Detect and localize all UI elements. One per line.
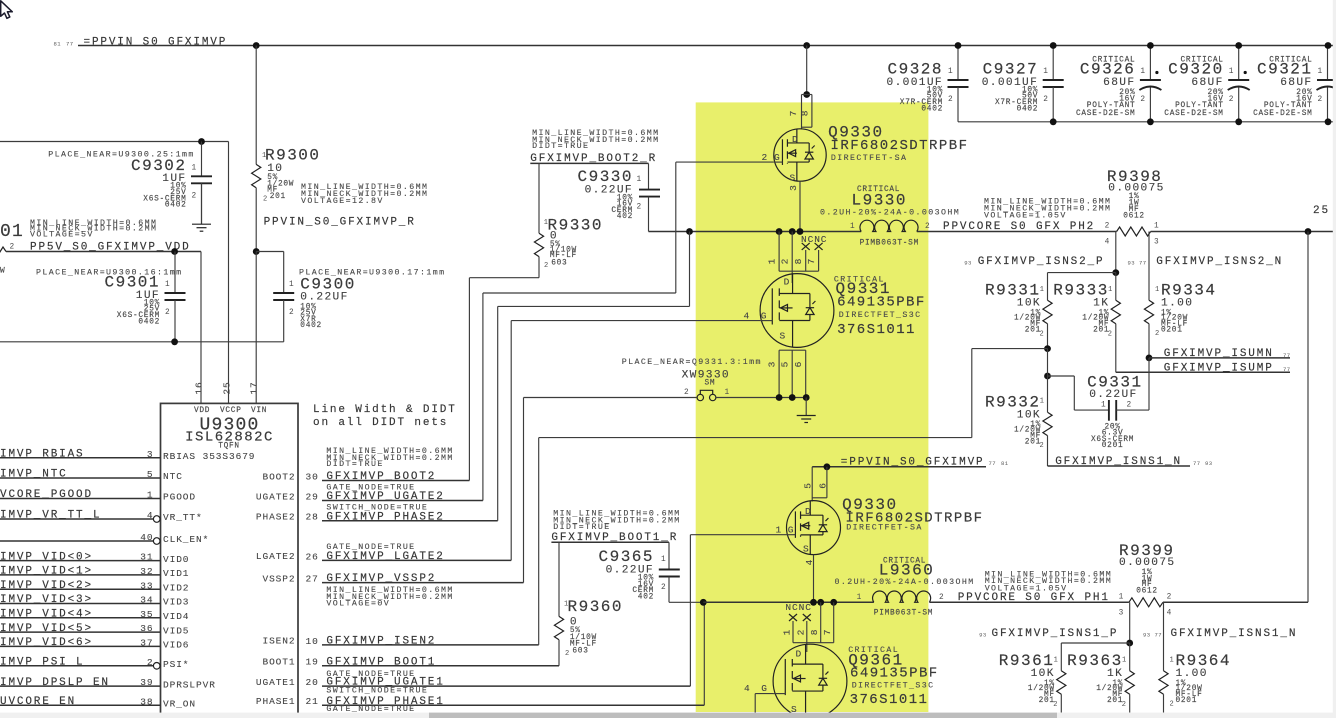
svg-text:68UF: 68UF — [1103, 77, 1135, 89]
svg-text:Line Width & DIDT: Line Width & DIDT — [313, 404, 457, 416]
svg-text:20: 20 — [306, 677, 319, 688]
wire Q9330 lower source pin 4 — [813, 555, 815, 603]
svg-text:93: 93 — [979, 631, 987, 638]
capacitor C9330 — [639, 189, 660, 191]
svg-text:402: 402 — [617, 213, 633, 221]
resistor R9331 — [1047, 273, 1049, 301]
svg-text:PPVCORE S0 GFX PH1: PPVCORE S0 GFX PH1 — [958, 592, 1110, 604]
junction dot sense2 T — [1112, 269, 1119, 276]
svg-text:PHASE2: PHASE2 — [256, 512, 296, 523]
svg-text:01: 01 — [0, 222, 24, 242]
svg-text:37: 37 — [140, 638, 153, 649]
svg-text:VOLTAGE=5V: VOLTAGE=5V — [30, 231, 94, 240]
svg-text:IMVP_VID<1>: IMVP_VID<1> — [0, 566, 93, 578]
svg-text:L9360: L9360 — [879, 561, 935, 579]
svg-text:GFXIMVP_ISUMN: GFXIMVP_ISUMN — [1164, 348, 1274, 360]
pin 34 VID3 — [0, 603, 161, 605]
svg-text:0402: 0402 — [300, 322, 322, 330]
ground under C9302 — [201, 183, 203, 224]
svg-text:VCORE_PGOOD: VCORE_PGOOD — [0, 489, 93, 501]
svg-text:1: 1 — [1108, 286, 1113, 294]
svg-text:DIRECTFET_S3C: DIRECTFET_S3C — [852, 681, 935, 690]
svg-text:0201: 0201 — [1161, 327, 1183, 335]
svg-text:1: 1 — [147, 490, 154, 501]
svg-text:IMVP_NTC: IMVP_NTC — [0, 469, 68, 481]
wire R9398 pin4 tap — [1115, 232, 1117, 273]
wire cap bank bottom rail — [958, 121, 1336, 123]
svg-text:1: 1 — [1229, 68, 1234, 76]
svg-text:GFXIMVP_ISNS1_P: GFXIMVP_ISNS1_P — [992, 628, 1119, 640]
svg-text:28: 28 — [306, 512, 319, 523]
svg-text:10K: 10K — [1017, 409, 1041, 421]
svg-text:649135PBF: 649135PBF — [837, 295, 926, 311]
svg-text:1.00: 1.00 — [1161, 298, 1193, 310]
wire Q9330 source pin 3 — [799, 181, 801, 231]
svg-text:402: 402 — [638, 594, 654, 602]
svg-text:POLY-TANT: POLY-TANT — [1264, 102, 1313, 110]
svg-text:VID3: VID3 — [163, 597, 189, 608]
svg-text:81: 81 — [54, 41, 62, 48]
svg-text:VR_TT*: VR_TT* — [163, 512, 203, 523]
svg-text:201: 201 — [270, 193, 286, 201]
svg-text:GFXIMVP_PHASE2: GFXIMVP_PHASE2 — [326, 511, 444, 523]
svg-text:27: 27 — [306, 574, 319, 585]
svg-text:3: 3 — [788, 184, 799, 191]
svg-text:31: 31 — [140, 552, 153, 563]
pin 1 PGOOD — [0, 498, 161, 500]
pin 40 CLK_EN* — [0, 540, 153, 542]
svg-text:PGOOD: PGOOD — [163, 492, 196, 503]
wire phase2 output right — [1151, 231, 1336, 233]
svg-text:36: 36 — [140, 623, 153, 634]
svg-text:VID2: VID2 — [163, 582, 189, 593]
svg-text:1: 1 — [165, 281, 170, 289]
svg-text:2: 2 — [147, 657, 154, 668]
wire LGATE1 to gate — [755, 693, 773, 695]
svg-text:VID6: VID6 — [163, 640, 189, 651]
svg-text:1: 1 — [1054, 656, 1059, 664]
pin 36 VID5 — [0, 631, 161, 633]
wire C9331 pin1 lead — [1048, 375, 1075, 377]
svg-text:0.2UH-20%-24A-0.003OHM: 0.2UH-20%-24A-0.003OHM — [820, 208, 960, 217]
svg-text:BOOT1: BOOT1 — [262, 657, 295, 668]
svg-text:7: 7 — [822, 629, 833, 636]
svg-text:RBIAS 353S3679: RBIAS 353S3679 — [163, 451, 255, 462]
svg-text:40: 40 — [140, 532, 153, 543]
pin 5 NTC — [0, 477, 161, 479]
svg-text:S: S — [790, 173, 797, 184]
svg-text:2: 2 — [939, 594, 944, 602]
svg-text:17: 17 — [249, 381, 260, 394]
pin 39 DPRSLPVR — [0, 685, 161, 687]
capacitor C9300 — [283, 252, 285, 294]
svg-text:26: 26 — [306, 551, 319, 562]
IC U9300 box — [161, 403, 299, 718]
svg-text:0201: 0201 — [1102, 442, 1124, 450]
transistor Q9361 — [806, 643, 808, 652]
svg-text:GFXIMVP_VSSP2: GFXIMVP_VSSP2 — [326, 573, 436, 585]
svg-text:VID1: VID1 — [163, 568, 189, 579]
net GFXIMVP_ISNS1_N upper — [1048, 465, 1191, 467]
svg-text:5: 5 — [803, 482, 814, 489]
svg-text:VOLTAGE=1.05V: VOLTAGE=1.05V — [985, 584, 1068, 593]
svg-text:77: 77 — [989, 460, 997, 467]
svg-text:29: 29 — [306, 491, 319, 502]
resistor R9361 — [1060, 643, 1062, 671]
svg-text:0.22UF: 0.22UF — [300, 291, 348, 303]
wire VSSP2 to jumper — [524, 397, 698, 399]
wire phase1 output — [929, 601, 1129, 603]
svg-text:1: 1 — [1318, 68, 1323, 76]
wire LGATE2 to gate — [511, 320, 760, 322]
svg-text:IMVP_RBIAS: IMVP_RBIAS — [0, 448, 85, 460]
polarity dot C9320 — [1244, 71, 1247, 74]
svg-text:8: 8 — [799, 110, 810, 117]
svg-text:32: 32 — [140, 566, 153, 577]
mouse cursor — [1, 1, 13, 19]
svg-text:DIRECTFET_S3C: DIRECTFET_S3C — [839, 311, 922, 320]
wire ISEN2 route — [538, 438, 540, 645]
svg-text:DIRECTFET-SA: DIRECTFET-SA — [831, 154, 907, 163]
wire BOOT2_R — [530, 162, 648, 164]
svg-text:IMVP_VR_TT_L: IMVP_VR_TT_L — [0, 510, 101, 522]
junction dot ISUM node1 — [1044, 345, 1051, 352]
svg-text:1: 1 — [948, 68, 953, 76]
svg-text:0201: 0201 — [1176, 697, 1198, 705]
svg-text:POLY-TANT: POLY-TANT — [1087, 102, 1136, 110]
junction dot VIN node — [253, 248, 260, 255]
svg-text:IRF6802SDTRPBF: IRF6802SDTRPBF — [831, 138, 969, 154]
svg-text:1: 1 — [850, 223, 855, 231]
svg-text:10: 10 — [267, 163, 283, 175]
svg-text:VID0: VID0 — [163, 554, 189, 565]
svg-text:D: D — [784, 277, 791, 288]
capacitor C9328 — [957, 46, 959, 81]
svg-text:6: 6 — [793, 361, 804, 368]
wire VIN jog to C9300 — [256, 251, 284, 253]
svg-text:DIDT=TRUE: DIDT=TRUE — [326, 460, 383, 469]
svg-text:1K: 1K — [1107, 668, 1123, 680]
svg-text:CLK_EN*: CLK_EN* — [163, 534, 209, 545]
svg-text:NCNC: NCNC — [785, 602, 811, 613]
wire Q9361 drain pins — [792, 621, 794, 643]
resistor R9334 — [1148, 232, 1150, 301]
svg-text:376S1011: 376S1011 — [850, 692, 929, 708]
svg-text:C9330: C9330 — [577, 168, 633, 186]
svg-text:DIDT=TRUE: DIDT=TRUE — [532, 142, 589, 151]
svg-text:2: 2 — [165, 309, 170, 317]
svg-text:1: 1 — [1040, 286, 1045, 294]
wire source node — [716, 397, 806, 399]
svg-text:GFXIMVP_LGATE2: GFXIMVP_LGATE2 — [326, 551, 444, 563]
svg-text:VID5: VID5 — [163, 625, 189, 636]
junction dots phase1 node — [810, 599, 817, 606]
svg-text:2: 2 — [1108, 330, 1113, 338]
svg-text:8: 8 — [809, 629, 820, 636]
svg-text:CASE-D2E-SM: CASE-D2E-SM — [1253, 110, 1312, 118]
capacitor C9331 — [1108, 400, 1110, 421]
svg-text:33: 33 — [140, 580, 153, 591]
svg-text:R9360: R9360 — [568, 598, 624, 616]
capacitor C9320 — [1238, 46, 1240, 81]
svg-text:2: 2 — [263, 196, 268, 204]
resistor R9332 — [1043, 412, 1052, 435]
svg-text:UGATE2: UGATE2 — [256, 491, 296, 502]
junction dot output join — [1305, 228, 1312, 235]
svg-text:1: 1 — [1040, 398, 1045, 406]
svg-text:PIMB063T-SM: PIMB063T-SM — [874, 610, 933, 618]
svg-text:UGATE1: UGATE1 — [256, 677, 296, 688]
polarity dot C9326 — [1155, 71, 1158, 74]
wire phase1 node — [703, 601, 874, 603]
svg-text:IMVP_PSI_L: IMVP_PSI_L — [0, 657, 85, 669]
wire C9302 stem from tap — [201, 142, 203, 177]
junction dot ISUMN — [1146, 355, 1153, 362]
wire sense1 to R9361 — [1061, 642, 1129, 644]
svg-text:1: 1 — [1155, 286, 1160, 294]
svg-text:CASE-D2E-SM: CASE-D2E-SM — [1164, 110, 1223, 118]
svg-text:VSSP2: VSSP2 — [262, 573, 295, 584]
pin 33 VID2 — [0, 588, 161, 590]
svg-text:2: 2 — [544, 262, 549, 270]
svg-text:IMVP_VID<4>: IMVP_VID<4> — [0, 609, 93, 621]
net =PPVIN_S0_GFXIMVP top rail wire — [78, 45, 1336, 47]
svg-text:1: 1 — [857, 594, 862, 602]
resistor R9364 — [1163, 602, 1165, 671]
svg-text:0402: 0402 — [921, 105, 943, 113]
svg-text:1: 1 — [1170, 656, 1175, 664]
svg-text:1: 1 — [289, 281, 294, 289]
svg-text:1.00: 1.00 — [1176, 668, 1208, 680]
junction dot sense1 T — [1126, 640, 1133, 647]
svg-text:1: 1 — [1101, 401, 1106, 409]
svg-text:2: 2 — [661, 584, 666, 592]
svg-text:1K: 1K — [1093, 298, 1109, 310]
svg-text:34: 34 — [140, 595, 153, 606]
svg-text:77: 77 — [1283, 366, 1291, 373]
svg-text:93: 93 — [1143, 631, 1151, 638]
wire PHASE1 riser — [703, 602, 705, 705]
svg-text:2: 2 — [1053, 701, 1058, 709]
svg-text:376S1011: 376S1011 — [837, 322, 916, 338]
junction dot pin6 — [824, 463, 831, 470]
svg-text:S: S — [780, 331, 787, 342]
wire phase2 node — [649, 231, 862, 233]
svg-text:93: 93 — [964, 260, 972, 267]
svg-text:0.22UF: 0.22UF — [1089, 389, 1137, 401]
svg-text:4: 4 — [804, 559, 815, 566]
svg-text:1: 1 — [767, 258, 778, 265]
wire UGATE2 to gate — [676, 161, 774, 163]
svg-text:38: 38 — [140, 696, 153, 707]
svg-text:GFXIMVP_ISNS2_P: GFXIMVP_ISNS2_P — [978, 256, 1105, 268]
transistor Q9330 — [774, 129, 826, 181]
ground at source node — [805, 398, 807, 416]
junction dot ISUM node2 — [1044, 373, 1051, 380]
wire phase interconnect right edge — [1307, 232, 1309, 603]
pin 4 VR_TT* — [0, 518, 153, 520]
svg-text:1: 1 — [1122, 656, 1127, 664]
svg-text:2: 2 — [1167, 593, 1172, 601]
svg-text:DIDT=TRUE: DIDT=TRUE — [553, 523, 610, 532]
svg-text:1: 1 — [782, 629, 793, 636]
svg-text:R9300: R9300 — [265, 146, 321, 164]
svg-text:VDD: VDD — [194, 407, 210, 415]
svg-text:PIMB063T-SM: PIMB063T-SM — [860, 240, 919, 248]
svg-text:35: 35 — [140, 609, 153, 620]
svg-text:93: 93 — [1205, 460, 1213, 467]
wire PP5V — [6, 251, 201, 253]
wire PHASE2 route — [497, 306, 499, 520]
svg-text:2: 2 — [1043, 96, 1048, 104]
svg-text:G: G — [788, 524, 795, 535]
wire BOOT1_R — [551, 541, 669, 543]
svg-text:77: 77 — [1155, 631, 1163, 638]
svg-text:77: 77 — [1139, 260, 1147, 267]
svg-text:PPVCORE S0 GFX PH2: PPVCORE S0 GFX PH2 — [943, 221, 1095, 233]
svg-text:IMVP_VID<2>: IMVP_VID<2> — [0, 580, 93, 592]
svg-text:G: G — [761, 310, 768, 321]
wire Q9331 drain pins — [778, 232, 780, 272]
resistor R9330 — [538, 163, 540, 233]
svg-text:7: 7 — [806, 258, 817, 265]
svg-text:BOOT2: BOOT2 — [262, 471, 295, 482]
svg-text:2: 2 — [10, 244, 15, 252]
svg-text:GFXIMVP_BOOT2: GFXIMVP_BOOT2 — [326, 471, 436, 483]
svg-text:on all DIDT nets: on all DIDT nets — [313, 417, 448, 429]
svg-text:D: D — [792, 134, 799, 145]
svg-text:DIRECTFET-SA: DIRECTFET-SA — [846, 524, 922, 533]
svg-text:4: 4 — [744, 310, 751, 321]
svg-text:GFXIMVP_ISEN2: GFXIMVP_ISEN2 — [326, 636, 436, 648]
svg-text:93: 93 — [1128, 260, 1136, 267]
pin 2 PSI* — [0, 665, 153, 667]
svg-text:10K: 10K — [1017, 298, 1041, 310]
svg-text:649135PBF: 649135PBF — [850, 665, 939, 681]
svg-text:NTC: NTC — [163, 471, 183, 482]
svg-text:30: 30 — [306, 471, 319, 482]
svg-text:TQFN: TQFN — [218, 443, 240, 451]
svg-text:39: 39 — [140, 677, 153, 688]
wire phase2 output — [917, 231, 1117, 233]
svg-text:2: 2 — [795, 629, 806, 636]
svg-text:603: 603 — [551, 260, 567, 268]
wire VSS rail left — [0, 341, 284, 343]
capacitor C9326 — [1149, 46, 1151, 81]
svg-text:2: 2 — [1105, 223, 1110, 231]
wire BOOT2 route — [468, 278, 470, 481]
svg-text:77: 77 — [1193, 460, 1201, 467]
wire R9399 pin3 tap — [1129, 602, 1131, 643]
svg-text:GFXIMVP_ISUMP: GFXIMVP_ISUMP — [1164, 362, 1274, 374]
wire sense2 to R9331 — [1048, 272, 1116, 274]
svg-text:G: G — [774, 152, 781, 163]
svg-text:DPRSLPVR: DPRSLPVR — [163, 679, 216, 690]
svg-text:0.00075: 0.00075 — [1119, 557, 1175, 569]
svg-text:4: 4 — [1105, 239, 1110, 247]
wire =PPVIN lower — [812, 466, 986, 468]
svg-text:IMVP_VID<5>: IMVP_VID<5> — [0, 623, 93, 635]
svg-text:8: 8 — [793, 258, 804, 265]
wire UGATE2 route — [482, 293, 484, 501]
svg-text:3: 3 — [1119, 609, 1124, 617]
net GFXIMVP_ISUMN — [1149, 357, 1290, 359]
svg-text:25: 25 — [1313, 205, 1330, 217]
svg-text:21: 21 — [306, 696, 319, 707]
wire phase1 output right — [1163, 601, 1308, 603]
svg-text:0402: 0402 — [165, 202, 187, 210]
svg-text:VIN: VIN — [251, 407, 267, 415]
svg-text:25: 25 — [222, 381, 233, 394]
wire VCCP feed top-left — [0, 141, 229, 143]
capacitor C9301 — [174, 252, 176, 294]
resistor R9360 — [558, 542, 560, 616]
svg-text:VR_ON: VR_ON — [163, 698, 196, 709]
junction dots phase2 node — [686, 228, 693, 235]
svg-text:77: 77 — [66, 41, 74, 48]
capacitor C9302 — [201, 175, 203, 177]
svg-text:2: 2 — [289, 309, 294, 317]
svg-text:77: 77 — [1283, 352, 1291, 359]
transistor Q9331 — [791, 271, 793, 283]
svg-text:L9330: L9330 — [852, 192, 908, 210]
svg-text:4: 4 — [147, 510, 154, 521]
svg-text:1: 1 — [637, 176, 642, 184]
junction dot Q9330 pin split — [803, 91, 810, 98]
wire LGATE2 route — [510, 321, 512, 561]
svg-text:SM: SM — [705, 380, 716, 388]
svg-text:VOLTAGE=1.05V: VOLTAGE=1.05V — [984, 212, 1067, 221]
junction dot C9301 bottom — [171, 338, 178, 345]
svg-text:ISEN2: ISEN2 — [262, 636, 295, 647]
pin 3 RBIAS 353S3679 — [0, 457, 161, 459]
resistor R9333 — [1115, 273, 1117, 301]
svg-text:VOLTAGE=12.8V: VOLTAGE=12.8V — [301, 197, 384, 206]
svg-text:1: 1 — [725, 389, 730, 397]
capacitor C9327 — [1052, 46, 1054, 81]
capacitor C9365 — [659, 569, 680, 571]
svg-text:10: 10 — [306, 636, 319, 647]
svg-text:VCCP: VCCP — [220, 407, 242, 415]
svg-text:PPVIN_S0_GFXIMVP_R: PPVIN_S0_GFXIMVP_R — [264, 216, 416, 228]
svg-text:0402: 0402 — [1017, 105, 1039, 113]
svg-text:1: 1 — [661, 556, 666, 564]
svg-text:0.2UH-20%-24A-0.003OHM: 0.2UH-20%-24A-0.003OHM — [835, 578, 975, 587]
svg-text:10K: 10K — [1031, 668, 1055, 680]
svg-text:2: 2 — [1170, 700, 1175, 708]
svg-text:3: 3 — [1154, 239, 1159, 247]
junction dots top rail — [253, 42, 260, 49]
svg-text:C9365: C9365 — [598, 548, 654, 566]
svg-text:2: 2 — [948, 96, 953, 104]
pin 37 VID6 — [0, 645, 161, 647]
svg-text:3: 3 — [767, 361, 778, 368]
vertical scrollbar — [1333, 0, 1336, 718]
svg-text:1: 1 — [1140, 68, 1145, 76]
svg-text:POLY-TANT: POLY-TANT — [1175, 102, 1224, 110]
junction dot phase1 left — [700, 599, 707, 606]
svg-text:4: 4 — [1167, 609, 1172, 617]
svg-text:2: 2 — [925, 223, 930, 231]
capacitor C9321 — [1327, 46, 1329, 81]
svg-text:2: 2 — [1140, 96, 1145, 104]
svg-text:IMVP_VID<0>: IMVP_VID<0> — [0, 551, 93, 563]
svg-text:IMVP_VID<6>: IMVP_VID<6> — [0, 637, 93, 649]
svg-text:UVCORE_EN: UVCORE_EN — [0, 696, 76, 708]
svg-text:1: 1 — [1154, 223, 1159, 231]
svg-text:1: 1 — [1043, 68, 1048, 76]
wire rail to Q9330 pins — [806, 46, 808, 95]
